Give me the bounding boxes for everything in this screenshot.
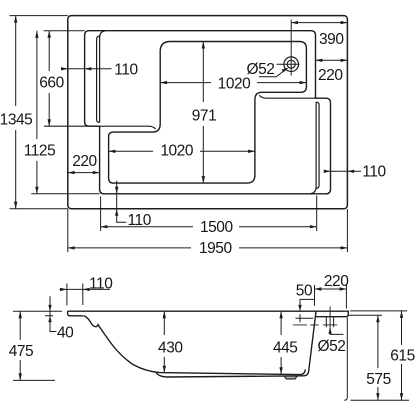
dim 445 line [280,311,282,374]
dim 971 line [202,42,204,184]
svg-text:220: 220 [318,67,343,84]
right rim lip bottom and end cap [316,311,349,317]
dim 220 side ext lines [315,285,347,309]
drain hole circles [284,57,299,72]
dim 660 line [48,31,50,127]
left slope curve into bottom slab top [84,316,305,375]
basin floor Z-outline [109,42,307,184]
svg-text:445: 445 [273,340,298,357]
svg-text:110: 110 [89,276,113,293]
tub outer rim rectangle [68,16,348,209]
svg-text:1345: 1345 [0,112,32,129]
label O52 side leader [330,328,343,335]
dim 430 line [163,311,165,373]
svg-text:475: 475 [9,343,34,360]
ext line rim end down to floor with hook [344,317,347,400]
dim 110 side ext lines [67,284,83,306]
drain centerline horizontal [277,63,300,65]
dim 40 line with foot [50,296,57,331]
svg-text:1500: 1500 [200,219,234,236]
dim 220 side line [315,288,347,290]
dim 1500 ext right [316,196,318,232]
dim 110 right line [324,170,361,172]
dim 110 bottom vertical line with foot [117,181,127,223]
dim 1345 ext top [10,15,68,17]
dim 1500 ext left [100,197,102,232]
left rim lip profile [68,311,84,316]
drain centerline vertical side [329,307,331,333]
dim 475 ext bottom [13,379,55,381]
svg-text:220: 220 [324,273,349,290]
dim 615 ext top [350,310,407,312]
svg-text:1125: 1125 [24,143,56,160]
dim 220 left line [68,172,100,174]
dim 1950 ext left [67,209,69,252]
drain centerline vertical [290,20,292,76]
svg-text:Ø52: Ø52 [247,61,275,78]
dim 50 lower ticks [296,314,314,322]
dim 1020 bottom line [109,150,255,152]
dim 660 ext top [44,30,85,32]
bottom slab underside and right outer wall [156,311,316,377]
dim 390 line [291,22,347,24]
svg-text:220: 220 [72,153,97,170]
svg-text:430: 430 [158,340,183,357]
label O52 top leader [259,68,287,77]
left step line with hook [44,126,156,129]
dim 475 line [19,311,21,380]
svg-text:615: 615 [390,347,415,364]
dim 40 ticks [45,311,62,316]
dim 1950 line [68,247,348,249]
dim 615 line [401,311,403,400]
dim 220 right line [316,59,348,61]
svg-text:50: 50 [296,283,313,300]
right backrest band [311,102,317,194]
left backrest band [100,31,105,123]
dim 1500 line [101,226,317,228]
dim 1020 top line [160,82,306,84]
dim 110 top-left line [61,68,112,70]
right step line with hook [259,95,315,98]
drain hole edges in side view [326,317,333,328]
dim 475 ext top [13,310,45,312]
svg-text:40: 40 [57,324,74,341]
svg-text:1020: 1020 [160,143,194,160]
dim 1345 line [15,16,17,209]
svg-text:Ø52: Ø52 [318,338,346,355]
right support pad [284,376,297,379]
dim 1125 line [36,31,38,194]
dim 110 side line [60,288,111,290]
rim hole Z-outline [85,31,331,194]
svg-text:390: 390 [319,31,344,48]
dim 50 leader [300,299,315,310]
dim 1345 ext bottom [10,208,68,210]
floor ext bottom right [351,399,410,401]
svg-text:110: 110 [114,62,138,79]
drain centerline horizontal side [293,324,337,326]
dim 575 line [377,315,379,400]
svg-text:575: 575 [366,371,391,388]
svg-text:971: 971 [192,107,217,124]
svg-text:660: 660 [39,75,64,92]
dim 575 ext top [348,314,382,316]
dim 1125 ext bottom [31,193,99,195]
rim top surface line [68,310,346,312]
dim 1950 ext right [346,209,348,252]
svg-text:110: 110 [362,164,386,181]
svg-text:1950: 1950 [199,240,233,257]
